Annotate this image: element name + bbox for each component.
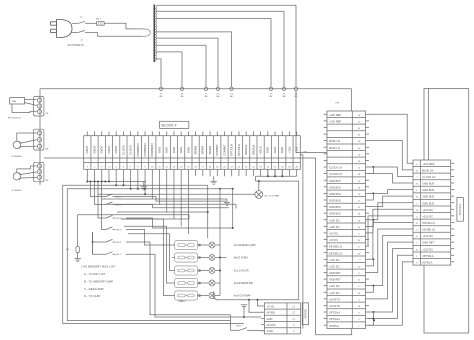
svg-text:SW-5: SW-5 (116, 229, 122, 231)
wire - rail E (105, 176, 236, 208)
switch S1a (79, 16, 97, 23)
wire - lamp common vertical (219, 242, 227, 295)
wire - secondary tap 4 (157, 32, 232, 87)
svg-text:FAN: FAN (12, 100, 17, 103)
wire - SW-2 output (115, 197, 226, 202)
svg-text:COMMON: COMMON (150, 143, 154, 156)
svg-text:+12V DC: +12V DC (422, 214, 433, 218)
svg-text:AC POWER IN: AC POWER IN (68, 44, 84, 47)
svg-text:IP WHEEL: IP WHEEL (12, 190, 23, 192)
svg-text:SW-6: SW-6 (116, 242, 122, 244)
svg-text:CLOCK LN: CLOCK LN (329, 166, 342, 170)
svg-text:+12V DC: +12V DC (422, 247, 433, 251)
svg-text:AL/LW BEAM IMP: AL/LW BEAM IMP (234, 282, 254, 285)
wire - lamp DS2 stub (215, 257, 220, 259)
motor B2 (12, 173, 23, 193)
wire - secondary tap 1 (157, 5, 297, 87)
lamp DS5 (209, 293, 215, 299)
module FM1 (8, 98, 25, 120)
svg-text:FM: FM (336, 103, 339, 105)
terminal E6 (269, 87, 273, 98)
svg-text:+12V REF: +12V REF (422, 162, 434, 166)
ballast module BM2 (175, 253, 198, 262)
switch SW-4 (98, 182, 122, 220)
svg-text:BLOCK F: BLOCK F (162, 124, 178, 128)
wire - col30 drop long (300, 155, 303, 329)
wire - B15 to A6 (369, 196, 410, 206)
svg-text:COMMON: COMMON (136, 143, 140, 156)
svg-text:SW-7: SW-7 (116, 254, 122, 256)
switch SW-6 (93, 232, 122, 244)
wire - secondary tap 6 (157, 45, 207, 87)
svg-text:+5VDC: +5VDC (92, 145, 96, 154)
wire - B17 to A7 (369, 203, 410, 227)
svg-text:KEYBD LN: KEYBD LN (329, 245, 342, 249)
wire - BM5 to lamp (198, 295, 209, 297)
wire - fan feed rail (98, 176, 255, 195)
svg-text:KEYBD LN: KEYBD LN (329, 251, 342, 255)
svg-text:CLOCK LN: CLOCK LN (422, 175, 435, 179)
fan M3 (255, 191, 280, 199)
svg-text:GND BUS: GND BUS (329, 212, 341, 216)
label KEYPAD (302, 303, 308, 325)
wire - rail H (124, 176, 181, 226)
resistor R1 (66, 215, 79, 259)
svg-text:BRAIN: BRAIN (208, 146, 212, 155)
svg-text:1-45 MEMORY BUS LIST: 1-45 MEMORY BUS LIST (81, 265, 116, 269)
svg-text:TUBE 2: TUBE 2 (178, 300, 187, 303)
wire - V2 drop (232, 189, 234, 228)
wire - secondary tap 3 (157, 19, 272, 88)
svg-text:+12V DC: +12V DC (329, 264, 340, 268)
svg-text:GND: GND (172, 147, 176, 153)
wire - B13 to A5 (369, 190, 410, 200)
wire - B5 to A2 (369, 141, 410, 170)
wire - terminal bus drop right (351, 89, 353, 111)
svg-text:GND: GND (165, 147, 169, 153)
connector KEYPAD table (261, 303, 301, 334)
svg-text:CLOCK: CLOCK (121, 145, 125, 155)
wire - SW-3 output (115, 205, 229, 208)
svg-text:GND: GND (273, 147, 277, 153)
svg-text:GND BUS: GND BUS (422, 201, 434, 205)
svg-text:INTMD LN: INTMD LN (422, 221, 434, 225)
wire - box top to table (427, 89, 429, 161)
connector J3 (34, 162, 49, 182)
wire - BLOCK F bottom pin stubs (87, 169, 296, 176)
svg-text:BLNK LN: BLNK LN (422, 168, 433, 172)
terminal E7 (282, 87, 286, 98)
wire - B10 to A4 (369, 174, 410, 183)
wire - B2 to J3 (17, 166, 37, 178)
svg-text:OPT/DLA: OPT/DLA (329, 311, 340, 315)
svg-text:IP WHEEL: IP WHEEL (12, 156, 23, 158)
wire - FM1 to J1 (12, 100, 37, 113)
wire - B19 to A8 (369, 209, 410, 233)
svg-text:INT/DLA: INT/DLA (329, 324, 339, 328)
connector BLOCK A table (410, 160, 455, 265)
wire - SW56 feed vertical (92, 232, 94, 254)
svg-text:Acs I/O W FAN: Acs I/O W FAN (265, 194, 280, 197)
svg-text:+12V DC: +12V DC (329, 291, 340, 295)
ground G2 (224, 201, 230, 203)
ground G3 (241, 305, 247, 317)
svg-text:+5VDC: +5VDC (100, 145, 104, 154)
svg-text:+5V DC: +5V DC (329, 232, 338, 236)
svg-text:+12V: +12V (295, 147, 299, 154)
svg-text:Acs I/O W BMP: Acs I/O W BMP (234, 294, 251, 297)
svg-text:GND BUS: GND BUS (329, 205, 341, 209)
svg-text:INTMD: INTMD (267, 311, 275, 315)
switch SW-2 (91, 182, 122, 199)
wire - B33 to A16 (369, 262, 410, 325)
svg-text:B - TO MEMORY AMP: B - TO MEMORY AMP (84, 279, 113, 283)
svg-text:GND: GND (157, 147, 161, 153)
svg-text:SM/DLA: SM/DLA (244, 145, 248, 156)
wire - rail C (border loop B) (67, 176, 233, 320)
ballast module BM5 (175, 291, 198, 300)
connector J1 (34, 97, 49, 117)
wire - SW-7 feed (126, 254, 261, 317)
svg-text:+5V RTN: +5V RTN (329, 297, 340, 301)
wire - lamp DS4 stub (215, 282, 220, 284)
svg-text:GND BUS: GND BUS (329, 179, 341, 183)
label BLOCK A (457, 198, 464, 222)
svg-text:AH/LT W BM: AH/LT W BM (234, 256, 248, 259)
connector BLOCK F table (84, 136, 301, 170)
wire - cable top conductor (104, 23, 143, 29)
svg-text:+12V DC: +12V DC (329, 258, 340, 262)
fuse F1 (96, 19, 105, 26)
svg-text:+5 VD: +5 VD (267, 304, 274, 308)
svg-text:GND BUS: GND BUS (329, 185, 341, 189)
svg-text:OPT/DLA: OPT/DLA (237, 144, 241, 156)
wire - rail J right group (256, 169, 297, 177)
wire - lamp DS3 stub (215, 270, 220, 272)
svg-text:OPT/DLA: OPT/DLA (329, 317, 340, 321)
wire - keypad row2 feed (248, 299, 261, 312)
wire - terminal bus (40, 88, 352, 90)
terminal E8 (294, 87, 298, 98)
wire - secondary tap 7 (157, 52, 183, 87)
svg-text:+5VDC: +5VDC (85, 145, 89, 154)
svg-text:GND BUS: GND BUS (422, 182, 434, 186)
svg-text:GND BUS: GND BUS (422, 195, 434, 199)
terminal E4 (216, 87, 220, 98)
wire - SW-6 output (126, 242, 230, 330)
wire - B32 to A15 (369, 255, 410, 325)
wire - rail R1 feed (78, 215, 189, 219)
wire - B31 to A14 (369, 249, 410, 319)
svg-text:+5V DC: +5V DC (329, 238, 338, 242)
svg-text:SW-1: SW-1 (96, 19, 102, 21)
wire - lamp feed verticals (164, 219, 175, 296)
wire - B21 to A9 (368, 216, 410, 246)
wire - lamp DS5 stub (215, 295, 220, 297)
svg-text:SW-8: SW-8 (236, 326, 242, 328)
wire - B1 to A1 (369, 114, 410, 163)
wire - B29 to A13 (369, 242, 410, 299)
svg-text:GND: GND (267, 317, 273, 321)
wire - BM3 to lamp (198, 270, 209, 272)
svg-text:AL/LO W LVR: AL/LO W LVR (234, 269, 249, 272)
switch SW-5 (102, 182, 122, 232)
ground G5 (211, 176, 217, 184)
wire - plug line bottom (71, 31, 79, 33)
svg-text:+5V RTN: +5V RTN (329, 304, 340, 308)
switch SW-3 (95, 182, 122, 207)
svg-text:BLOCK A: BLOCK A (458, 204, 462, 215)
wire - rail D with ground (102, 176, 228, 202)
svg-text:C - READ AMP: C - READ AMP (84, 287, 104, 291)
svg-text:COM: COM (267, 329, 273, 333)
svg-text:+12V DC: +12V DC (422, 234, 433, 238)
svg-text:BRAIN: BRAIN (194, 146, 198, 155)
switch S1b (79, 30, 98, 41)
lamp DS4 (209, 280, 215, 286)
svg-text:BRAIN: BRAIN (201, 146, 205, 155)
wire - BLOCK F top pin stubs (87, 131, 296, 135)
svg-text:GND: GND (186, 147, 190, 153)
svg-text:COMMON: COMMON (143, 143, 147, 156)
svg-text:KEYBD LN: KEYBD LN (422, 228, 435, 232)
wire - secondary tap 5 (157, 38, 219, 87)
lamp DS1 (209, 242, 215, 248)
wire - terminal 296 drop (296, 91, 327, 153)
svg-text:CLOCK: CLOCK (129, 145, 133, 155)
svg-text:+12V DC: +12V DC (329, 284, 340, 288)
transformer T1 secondary winding (155, 6, 156, 61)
svg-text:BLNK LN: BLNK LN (329, 146, 340, 150)
svg-text:GND BUS: GND BUS (329, 192, 341, 196)
svg-text:COMMIT: COMMIT (215, 144, 219, 156)
svg-text:GND: GND (266, 147, 270, 153)
svg-text:A - +5 VDC LIST: A - +5 VDC LIST (84, 272, 106, 276)
connector J2 (34, 129, 49, 150)
wire - SW-5 output (126, 230, 175, 246)
svg-text:GND: GND (179, 147, 183, 153)
enclosure BLOCK A outer box (424, 89, 469, 334)
svg-text:HOLD: HOLD (258, 146, 262, 154)
wire - keypad row1 feed (257, 299, 262, 306)
svg-text:BLNK LN: BLNK LN (329, 139, 340, 143)
svg-text:GND BUS: GND BUS (422, 188, 434, 192)
svg-text:OPT/DLA: OPT/DLA (230, 144, 234, 156)
lamp DS2 (209, 255, 215, 261)
transformer T1 core (153, 5, 155, 63)
wire - lamp DS1 stub (215, 244, 220, 246)
wire - rail G (121, 176, 189, 219)
svg-text:COMMIT: COMMIT (222, 144, 226, 156)
svg-text:CLOCK LN: CLOCK LN (329, 172, 342, 176)
svg-text:FM: FM (304, 151, 307, 153)
svg-text:+12V DC: +12V DC (329, 225, 340, 229)
svg-text:GND RET: GND RET (329, 271, 341, 275)
terminal E2 (180, 87, 184, 98)
svg-text:INT/DLA: INT/DLA (422, 260, 432, 264)
svg-text:GND BUS: GND BUS (329, 199, 341, 203)
svg-text:GND: GND (280, 147, 284, 153)
wire - B23 to A10 (369, 222, 410, 265)
terminal E3 (204, 87, 208, 98)
lamp DS3 (209, 268, 215, 274)
terminal E1 (159, 87, 163, 98)
wire - BM1 to lamp (198, 244, 209, 246)
svg-text:SW-4: SW-4 (116, 218, 122, 220)
svg-text:+12V REF: +12V REF (329, 113, 341, 117)
svg-text:RF MODULE: RF MODULE (8, 118, 21, 120)
ground G1 (141, 182, 147, 190)
svg-text:OPT/DLA: OPT/DLA (422, 254, 433, 258)
junction dot (373, 319, 375, 321)
wire - B25 to A11 (369, 229, 410, 273)
svg-text:+5VDC: +5VDC (114, 145, 118, 154)
wire - B9 to A3 (369, 166, 410, 176)
wire - rail B (border loop A) (63, 176, 244, 323)
switch SW-7 (93, 232, 122, 256)
ground G4 (74, 258, 80, 260)
wire - SW-4 output (126, 218, 233, 228)
junction dot col8 cross (144, 188, 146, 190)
svg-text:KEYPAD: KEYPAD (304, 309, 307, 318)
ballast module BM3 (175, 266, 198, 275)
wire - left bus (39, 89, 41, 185)
motor B1 (12, 141, 23, 158)
svg-text:D - TO CHIP: D - TO CHIP (84, 294, 100, 298)
svg-text:GND RET: GND RET (329, 278, 341, 282)
svg-text:+5VDC: +5VDC (107, 145, 111, 154)
notes text (81, 265, 116, 299)
svg-text:CLOCK: CLOCK (267, 323, 276, 327)
wire - secondary tap 8 (157, 59, 162, 87)
wire - cable bottom conductor (98, 32, 144, 36)
wire - lamp5 drop (214, 291, 216, 300)
wire - lamp common drop (219, 189, 221, 243)
wire - cable end cap (143, 29, 150, 36)
wire - loop to keypad (216, 176, 299, 300)
switch SW-8 (230, 326, 264, 331)
connector BLOCK B table (324, 111, 369, 329)
svg-text:ALL/W BEAM LAMP: ALL/W BEAM LAMP (234, 244, 256, 247)
wire - B1 to J2 (17, 133, 37, 147)
wire - rail I (128, 176, 188, 234)
svg-text:+12V DC: +12V DC (329, 218, 340, 222)
svg-text:+12V: +12V (287, 147, 291, 154)
wire - rail A (86, 176, 146, 182)
wire - long feed to right (44, 158, 352, 335)
svg-text:SM/DLA: SM/DLA (251, 145, 255, 156)
ballast module BM1 (175, 240, 198, 249)
svg-text:+12V REF: +12V REF (329, 119, 341, 123)
wire - secondary tap 2 (157, 11, 285, 87)
svg-text:+12V DC: +12V DC (422, 208, 433, 212)
wire - plug line top (72, 22, 79, 24)
terminal E5 (230, 87, 234, 98)
wire - BM2 to lamp (198, 257, 209, 259)
svg-text:GND RET: GND RET (422, 241, 434, 245)
AC plug P1 (51, 20, 84, 48)
wire - rail F long (117, 176, 209, 213)
label BLOCK F (160, 121, 189, 128)
wire - B27 to A12 (369, 236, 410, 293)
ballast module BM4 (175, 278, 198, 287)
wire - BM4 to lamp (198, 282, 209, 284)
